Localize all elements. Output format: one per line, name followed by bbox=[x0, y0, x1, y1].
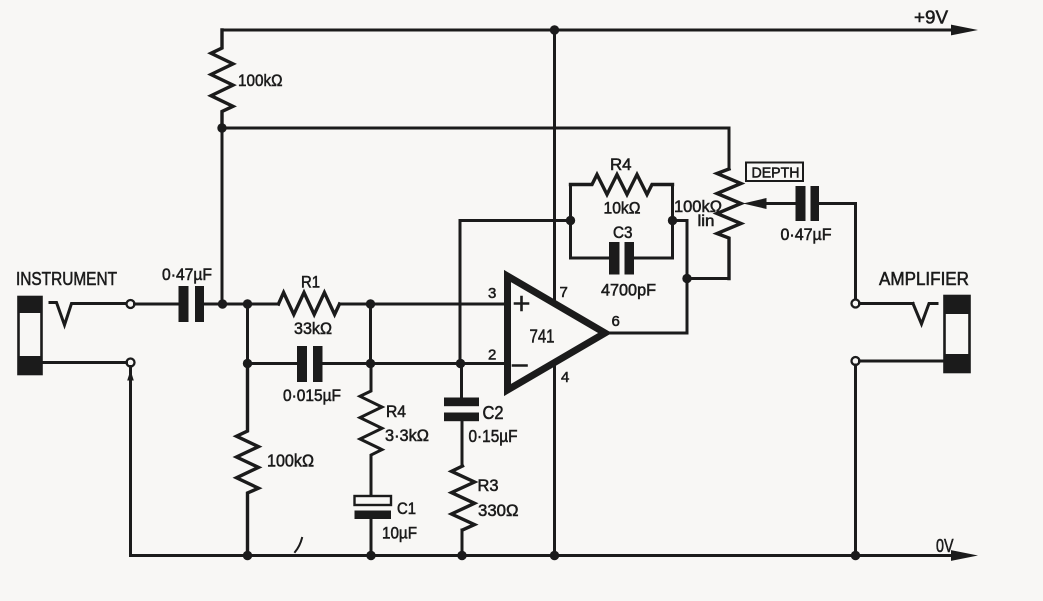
resistor R1 33k bbox=[279, 293, 340, 315]
svg-text:0·15µF: 0·15µF bbox=[469, 426, 518, 446]
svg-text:0·47µF: 0·47µF bbox=[781, 225, 832, 244]
capacitor 0.47uF (output) bbox=[796, 186, 820, 221]
wire circle to C 0.47u bbox=[135, 303, 179, 306]
junction dot amp ground rail bbox=[851, 551, 860, 560]
wire feedback to pin2 bbox=[460, 221, 571, 364]
wire jack sleeve to circle bbox=[42, 361, 127, 364]
junction dot R1 right node bbox=[366, 299, 375, 308]
wire C2 to R3 bbox=[461, 421, 464, 466]
svg-text:AMPLIFIER: AMPLIFIER bbox=[879, 269, 969, 289]
0V arrowhead bbox=[951, 550, 978, 561]
label box DEPTH bbox=[746, 163, 803, 182]
svg-text:741: 741 bbox=[530, 327, 555, 347]
wire to cap 0.015u bbox=[248, 362, 298, 365]
junction dot top rail bbox=[550, 25, 559, 34]
svg-text:C1: C1 bbox=[397, 500, 416, 518]
svg-text:0V: 0V bbox=[936, 536, 954, 556]
svg-text:+9V: +9V bbox=[914, 7, 949, 28]
svg-text:10µF: 10µF bbox=[382, 524, 417, 543]
terminal circle (amp hot) bbox=[852, 300, 860, 308]
capacitor C2 0.15uF bbox=[444, 398, 479, 422]
svg-text:DEPTH: DEPTH bbox=[752, 165, 800, 182]
minus sign (pin2 input) bbox=[513, 364, 527, 367]
resistor R3 330 bbox=[452, 466, 475, 530]
svg-text:0·47µF: 0·47µF bbox=[162, 265, 212, 284]
wire 0V bottom rail bbox=[131, 554, 957, 557]
wire feedback right to output node bbox=[673, 221, 688, 334]
junction dot 0.015u right bbox=[366, 359, 375, 368]
terminal circle (amp ground) bbox=[852, 357, 860, 365]
svg-text:INSTRUMENT: INSTRUMENT bbox=[16, 269, 117, 289]
scan artifact tick bbox=[295, 538, 302, 552]
junction dot output node bbox=[682, 274, 691, 283]
capacitor C3 4700pF bbox=[571, 257, 673, 260]
junction dot pin2 node bbox=[456, 359, 465, 368]
wire node A down to input node bbox=[221, 128, 224, 304]
capacitor 0.47uF (input) bbox=[179, 286, 205, 322]
amp jack tip contact squiggle bbox=[913, 304, 937, 325]
svg-text:R4: R4 bbox=[386, 403, 406, 421]
wire pin2 node down to C2 bbox=[460, 364, 463, 398]
svg-text:C2: C2 bbox=[483, 403, 504, 423]
svg-text:330Ω: 330Ω bbox=[478, 501, 519, 520]
jack tip contact squiggle bbox=[50, 303, 127, 326]
terminal circle (instrument ground) bbox=[127, 359, 135, 367]
wire opamp output pin6 bbox=[605, 332, 688, 335]
svg-text:2: 2 bbox=[488, 347, 496, 364]
potentiometer 100k lin body bbox=[717, 169, 741, 279]
junction dot feedback left bbox=[566, 216, 575, 225]
wire amp ground circle to jack bbox=[860, 360, 945, 363]
wire cap to pin2 line bbox=[323, 362, 508, 365]
feedback box right side bbox=[671, 185, 674, 259]
wire pot bottom to output node bbox=[687, 277, 729, 280]
wire instrument ground down to rail bbox=[131, 367, 141, 556]
svg-text:R3: R3 bbox=[478, 477, 499, 495]
svg-text:0·015µF: 0·015µF bbox=[283, 386, 341, 405]
capacitor 0.015uF bbox=[297, 346, 323, 382]
junction dot rail x=247 bbox=[243, 551, 252, 560]
junction dot rail x=371 bbox=[366, 551, 375, 560]
svg-text:lin: lin bbox=[698, 213, 715, 230]
small insertion arrow bbox=[127, 370, 134, 381]
resistor 100k (supply, top left) bbox=[211, 30, 233, 128]
svg-text:4: 4 bbox=[561, 369, 569, 386]
svg-text:100kΩ: 100kΩ bbox=[267, 451, 314, 471]
wire amp ground circle down to rail bbox=[854, 365, 857, 556]
wire C1 to ground rail bbox=[370, 519, 373, 556]
plus sign (pin3 input) bbox=[515, 297, 528, 310]
svg-text:7: 7 bbox=[560, 284, 568, 301]
svg-text:100kΩ: 100kΩ bbox=[238, 71, 283, 90]
svg-text:33kΩ: 33kΩ bbox=[294, 319, 332, 338]
wire node down left (to 0.015u row) bbox=[246, 304, 249, 364]
terminal circle (instrument hot) bbox=[127, 300, 135, 308]
op-amp U1 741 triangle bbox=[508, 276, 606, 390]
svg-text:R4: R4 bbox=[610, 156, 632, 174]
pot wiper arrow bbox=[743, 198, 767, 209]
svg-text:4700pF: 4700pF bbox=[601, 281, 656, 300]
junction dot rail x=462 bbox=[457, 551, 466, 560]
resistor R4 3.3k bbox=[360, 364, 382, 497]
jack plug INSTRUMENT bbox=[19, 297, 42, 374]
junction dot 0.015u left bbox=[243, 359, 252, 368]
resistor 100k (input bias to ground) bbox=[237, 364, 259, 556]
svg-text:3: 3 bbox=[488, 285, 496, 302]
capacitor C1 10uF electrolytic bbox=[355, 496, 392, 519]
node A junction dot bbox=[217, 123, 226, 132]
svg-text:6: 6 bbox=[612, 313, 620, 330]
svg-text:3·3kΩ: 3·3kΩ bbox=[385, 426, 429, 445]
junction dot R1 left node bbox=[243, 299, 252, 308]
svg-text:10kΩ: 10kΩ bbox=[604, 199, 641, 218]
wire +9V top rail bbox=[222, 29, 956, 32]
resistor R4 10k (feedback) bbox=[571, 175, 673, 195]
junction dot rail x=554 bbox=[550, 551, 559, 560]
jack plug AMPLIFIER bbox=[945, 296, 970, 372]
junction dot input node bbox=[218, 299, 227, 308]
junction dot feedback right bbox=[668, 216, 677, 225]
wire circle to amp squiggle bbox=[860, 302, 914, 305]
wire node down right (to 0.015u row) bbox=[369, 304, 372, 364]
wire R3 to ground rail bbox=[461, 530, 464, 556]
wire V+ rail to pin7 bbox=[553, 30, 556, 301]
wire cap to input node bbox=[204, 303, 279, 306]
wire node A to pot top bbox=[222, 128, 729, 169]
+9V arrowhead bbox=[951, 25, 978, 36]
wire R1 to opamp pin3 bbox=[340, 303, 508, 306]
svg-text:R1: R1 bbox=[301, 274, 320, 292]
feedback box left side bbox=[569, 185, 572, 259]
wire cap to amplifier jack bbox=[819, 204, 856, 300]
svg-text:C3: C3 bbox=[613, 224, 633, 242]
wire pin4 to ground rail bbox=[553, 365, 556, 556]
